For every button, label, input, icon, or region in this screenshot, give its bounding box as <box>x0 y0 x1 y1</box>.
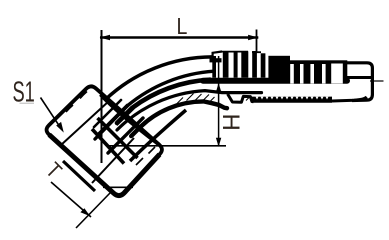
svg-text:L: L <box>177 13 188 39</box>
svg-text:H: H <box>217 114 244 131</box>
